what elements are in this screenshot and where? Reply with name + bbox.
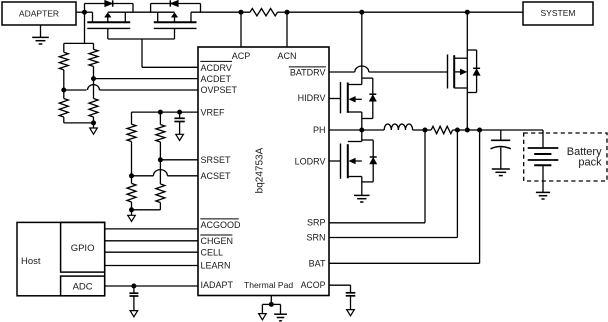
wire ACP pin — [240, 12, 242, 47]
wire ACDET — [94, 78, 199, 80]
IC name bq24753A — [255, 147, 266, 193]
resistor R9 sense — [431, 126, 452, 133]
transistor Q5 LOFET — [341, 142, 362, 179]
wire BAT node to battery — [480, 129, 543, 131]
diode D1 loop wire — [85, 4, 134, 13]
wire OVPSET hop — [88, 85, 100, 90]
transistor Q1 ACFET — [87, 12, 130, 39]
svg-text:BAT: BAT — [309, 259, 326, 269]
capacitor C2 IADAPT — [129, 286, 138, 296]
pin label IADAPT — [201, 280, 234, 290]
svg-text:IADAPT: IADAPT — [201, 280, 234, 290]
svg-text:ACSET: ACSET — [201, 171, 232, 181]
wire Q1 drain to Q2 drain — [125, 11, 157, 13]
resistor R1 — [59, 52, 68, 70]
ground thermal left — [259, 304, 272, 319]
wire rail to SYSTEM — [467, 11, 523, 13]
pin label SRSET — [201, 155, 232, 165]
wire BATDRV hop — [355, 66, 369, 72]
svg-text:Host: Host — [21, 256, 41, 267]
pin label OVPSET — [201, 85, 238, 95]
node SRN junction — [455, 128, 460, 133]
ground C4 — [347, 296, 355, 316]
capacitor C1 VREF — [174, 112, 184, 121]
svg-text:ACOP: ACOP — [301, 280, 326, 290]
svg-text:CHGEN: CHGEN — [201, 236, 234, 246]
wire HIDRV gate — [329, 98, 341, 100]
wire OVPSET left — [64, 89, 87, 91]
transistor Q2 ACFET — [154, 12, 197, 39]
pin label BATDRV — [289, 67, 326, 77]
SYSTEM box — [523, 2, 593, 25]
wire gate bus — [108, 39, 175, 67]
ground C3 — [492, 169, 510, 176]
wire LEARN — [105, 265, 198, 267]
wire LODRV gate — [329, 160, 341, 162]
wire Q5 drain — [361, 130, 363, 142]
pin label LEARN — [201, 261, 231, 271]
svg-text:ACGOOD: ACGOOD — [201, 220, 242, 230]
node VREF junction 2 — [177, 110, 182, 115]
wire divider bottom — [64, 122, 94, 124]
svg-text:SRSET: SRSET — [201, 155, 232, 165]
diode D2 loop wire — [151, 4, 201, 13]
svg-text:OVPSET: OVPSET — [201, 85, 238, 95]
wire CELL — [105, 251, 198, 253]
svg-text:LEARN: LEARN — [201, 261, 231, 271]
wire Q3 drain from rail — [466, 12, 468, 130]
wire sense to SRN node — [453, 129, 458, 131]
pin label VREF — [201, 107, 226, 117]
wire R2 leads — [63, 90, 65, 123]
ground Q5 source — [354, 195, 370, 202]
svg-text:GPIO: GPIO — [71, 243, 95, 254]
Host box — [17, 222, 105, 295]
ground thermal right — [271, 304, 287, 320]
node A junction — [82, 10, 87, 15]
wire node A to Q1 source — [85, 11, 93, 13]
resistor R3 — [89, 49, 98, 66]
wire inductor to SRP node — [413, 129, 425, 131]
diode D5 — [370, 157, 377, 164]
pin label ACN — [277, 51, 296, 61]
resistor R8 — [156, 184, 165, 203]
node VREF junction 1 — [158, 110, 163, 115]
svg-text:pack: pack — [578, 157, 602, 169]
ADC box — [61, 276, 105, 296]
ground divider — [90, 123, 98, 134]
wire OVPSET right — [100, 89, 199, 91]
wire rail Q2 to ACP — [191, 11, 250, 13]
wire R4 lead — [93, 117, 95, 123]
wire Q5 source — [361, 177, 363, 196]
ADAPTER box — [2, 2, 76, 25]
Battery pack box — [524, 133, 607, 181]
ground C1 — [176, 122, 184, 141]
svg-text:ACP: ACP — [232, 51, 251, 61]
svg-text:SYSTEM: SYSTEM — [541, 8, 576, 18]
wire Q4 source — [361, 112, 363, 130]
GPIO box — [61, 222, 105, 272]
wire adapter to node A — [76, 11, 85, 13]
node thermal pad junction — [269, 302, 274, 307]
svg-text:Thermal Pad: Thermal Pad — [244, 280, 293, 290]
svg-text:SRN: SRN — [306, 233, 325, 243]
pin label Thermal Pad — [244, 280, 293, 290]
wire SRSET — [160, 159, 198, 161]
pin label ACOP — [301, 280, 326, 290]
pin label LODRV — [295, 157, 326, 167]
node ACSET junction — [129, 173, 134, 178]
svg-text:SRP: SRP — [307, 218, 326, 228]
diode D5 loop wire — [362, 140, 373, 182]
pin label ACGOOD — [200, 219, 241, 230]
wire ACN pin — [286, 12, 288, 47]
svg-text:BATDRV: BATDRV — [290, 67, 326, 77]
wire rail to BATDRV branch — [362, 11, 468, 13]
ground VREF network — [128, 210, 136, 222]
wire R1 to OVPSET node — [63, 70, 65, 90]
wire R3 node down — [93, 79, 95, 99]
pin label SRN — [306, 233, 325, 243]
svg-text:ADAPTER: ADAPTER — [19, 8, 59, 18]
wire network bottom — [132, 209, 161, 211]
svg-text:ACDRV: ACDRV — [201, 63, 232, 73]
node SRSET junction — [158, 157, 163, 162]
wire R3 to ACDET node — [93, 66, 95, 78]
wire R5 lead — [131, 112, 133, 124]
wire BATDRV gate left — [329, 71, 355, 73]
ground adapter — [32, 25, 49, 44]
wire node A down — [84, 12, 86, 43]
pin label BAT — [309, 259, 326, 269]
wire BAT — [329, 130, 480, 263]
wire rail ACN to HIDRV branch — [287, 11, 362, 13]
ground battery — [536, 192, 550, 199]
op-amp U1 bq24753A body — [198, 47, 329, 296]
svg-text:VREF: VREF — [201, 107, 226, 117]
node IADAPT junction — [131, 284, 136, 289]
diode D3 — [473, 68, 480, 75]
node BATDRV drain junction — [465, 128, 470, 133]
wire ACGOOD — [105, 228, 198, 230]
wire to BAT node — [467, 129, 479, 131]
ground C2 — [130, 296, 138, 317]
node ACN junction — [285, 10, 290, 15]
wire ACOP — [329, 285, 351, 293]
node ACP junction — [239, 10, 244, 15]
node BATDRV junction — [465, 10, 470, 15]
svg-text:CELL: CELL — [201, 247, 224, 257]
wire R8 bottom lead — [159, 203, 161, 210]
wire divider bracket — [64, 43, 94, 52]
node BAT junction — [477, 128, 482, 133]
svg-text:LODRV: LODRV — [295, 157, 326, 167]
wire R8 top lead — [159, 160, 161, 184]
wire R6 leads — [131, 176, 133, 210]
resistor input sense — [250, 9, 278, 16]
node divider bottom junction — [91, 120, 96, 125]
svg-text:HIDRV: HIDRV — [298, 93, 326, 103]
resistor R5 — [127, 124, 136, 141]
svg-text:PH: PH — [313, 125, 326, 135]
svg-text:ACDET: ACDET — [201, 74, 232, 84]
wire IADAPT — [105, 285, 198, 287]
pin label ACP — [232, 51, 251, 61]
wire rail to ACN — [278, 11, 288, 13]
wire ACDRV — [142, 66, 198, 68]
node ACDET junction — [91, 76, 96, 81]
svg-text:bq24753A: bq24753A — [255, 147, 266, 193]
svg-text:ACN: ACN — [277, 51, 296, 61]
pin label HIDRV — [298, 93, 326, 103]
wire R7 lead — [159, 112, 161, 124]
wire PH to inductor — [362, 129, 384, 131]
wire VREF rail — [132, 111, 199, 113]
capacitor C3 output — [491, 130, 511, 169]
inductor L1 — [384, 124, 412, 130]
pin label ACSET — [201, 171, 232, 181]
wire SRN to BATDRV node — [457, 129, 467, 131]
diode D1 — [105, 0, 113, 6]
resistor R2 — [59, 99, 68, 118]
node OVPSET junction — [61, 88, 66, 93]
pin label PH — [313, 125, 326, 135]
wire ACSET hop — [153, 170, 167, 176]
pin label ACDRV — [200, 61, 232, 73]
node HIDRV drain junction — [359, 10, 364, 15]
wire thermal pad — [270, 296, 272, 305]
pin label CHGEN — [200, 235, 233, 246]
wire SRP — [329, 130, 425, 223]
diode D4 — [369, 94, 376, 101]
diode D2 — [170, 0, 178, 6]
resistor R6 — [127, 183, 136, 202]
transistor Q4 HIFET — [341, 82, 362, 113]
wire ACSET right — [167, 175, 198, 177]
wire ACSET left — [132, 175, 154, 177]
pin label CELL — [201, 247, 224, 257]
diode D3 loop wire — [467, 50, 476, 93]
wire SRP lead — [425, 129, 431, 131]
capacitor C4 ACOP — [346, 293, 356, 296]
diode D4 loop wire — [362, 78, 373, 118]
wire R7 to SRSET node — [159, 142, 161, 160]
wire SRN — [329, 130, 457, 238]
node SRP junction — [423, 128, 428, 133]
wire PH pin — [329, 129, 362, 131]
battery BT1 — [528, 130, 559, 192]
svg-text:ADC: ADC — [73, 282, 93, 293]
node network bottom junction — [129, 207, 134, 212]
node PH junction — [359, 128, 364, 133]
wire R5 to ACSET node — [131, 142, 133, 176]
resistor R7 — [156, 125, 165, 143]
resistor R4 — [89, 99, 98, 118]
pin label ACDET — [201, 74, 232, 84]
transistor Q3 BATFET — [448, 55, 468, 89]
wire Q4 drain — [361, 12, 363, 84]
wire CHGEN — [105, 240, 198, 242]
pin label SRP — [307, 218, 326, 228]
wire BATDRV gate right — [369, 71, 448, 73]
